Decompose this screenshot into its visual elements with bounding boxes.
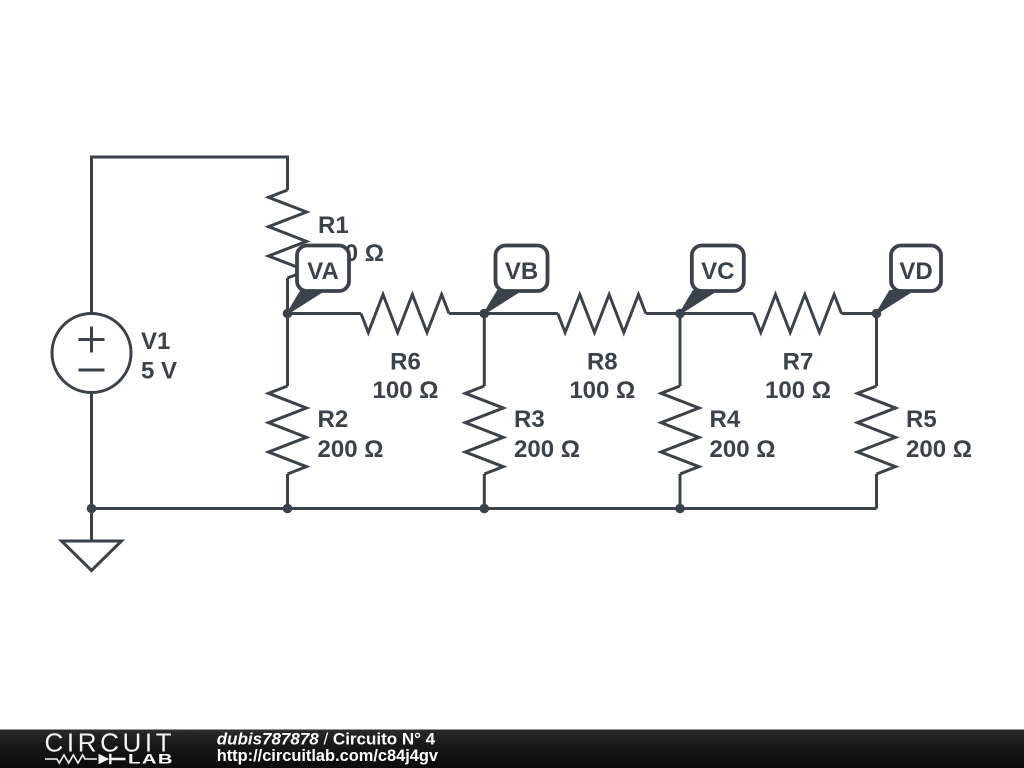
wire: node VC to R7 left lead (680, 312, 754, 315)
CircuitLab logo squiggle resistor (45, 755, 97, 763)
node VC junction dot (675, 309, 685, 319)
footer bar (0, 730, 1024, 768)
V1 minus sign (79, 369, 105, 372)
svg-text:200 Ω: 200 Ω (514, 436, 580, 463)
svg-text:100 Ω: 100 Ω (765, 377, 831, 404)
resistor R8 zigzag (558, 295, 646, 333)
svg-text:R2: R2 (318, 406, 349, 433)
svg-text:R3: R3 (514, 406, 545, 433)
node VB flag tail (484, 291, 520, 314)
CircuitLab logo diode (99, 754, 110, 764)
V1 plus sign (79, 327, 105, 353)
svg-text:R6: R6 (390, 349, 421, 376)
svg-text:100 Ω: 100 Ω (569, 377, 635, 404)
voltage source V1 circle (52, 314, 131, 393)
wire: R6 right lead to node VB (449, 312, 484, 315)
junction dot R3 bottom (480, 504, 490, 514)
svg-text:VA: VA (307, 258, 339, 285)
resistor R7 zigzag (754, 295, 842, 333)
svg-text:http://circuitlab.com/c84j4gv: http://circuitlab.com/c84j4gv (217, 747, 439, 765)
svg-text:R4: R4 (710, 406, 741, 433)
wire: bottom rail (92, 507, 877, 510)
wire: R1 bottom lead to node VA (286, 278, 289, 314)
svg-text:R7: R7 (783, 349, 814, 376)
wire: node VB to R8 left lead (484, 312, 558, 315)
wire: V1 top to top rail to R1 top lead (92, 157, 288, 314)
node VB flag box (496, 246, 548, 292)
svg-text:VB: VB (505, 258, 538, 285)
svg-text:100 Ω: 100 Ω (373, 377, 439, 404)
svg-text:dubis787878 / Circuito N° 4: dubis787878 / Circuito N° 4 (217, 730, 436, 749)
node VA flag tail (288, 291, 324, 314)
svg-text:200 Ω: 200 Ω (906, 436, 972, 463)
node VC flag tail (680, 291, 716, 314)
svg-text:LAB: LAB (128, 751, 174, 767)
wire: node VA to R6 left lead (288, 312, 362, 315)
footer glow (0, 699, 490, 759)
wire: R2 bottom lead to bottom rail (286, 474, 289, 509)
node VC flag box (692, 246, 744, 292)
node VD flag box (891, 246, 941, 292)
node VB junction dot (480, 309, 490, 319)
svg-text:200 Ω: 200 Ω (318, 436, 384, 463)
resistor R2 zigzag (269, 386, 307, 474)
resistor R4 zigzag (661, 386, 699, 474)
resistor R6 zigzag (361, 295, 449, 333)
node VA junction dot (283, 309, 293, 319)
resistor R3 zigzag (465, 386, 503, 474)
wire: R3 bottom lead to bottom rail (483, 474, 486, 509)
wire: R5 bottom lead to bottom rail (875, 474, 878, 509)
svg-text:VD: VD (899, 258, 932, 285)
resistor R5 zigzag (858, 386, 896, 474)
node VD flag tail (877, 291, 913, 314)
svg-text:VC: VC (701, 258, 734, 285)
wire: R7 right lead to node VD (842, 312, 877, 315)
svg-text:V1: V1 (141, 328, 170, 355)
ground stem (90, 509, 93, 542)
svg-text:200 Ω: 200 Ω (710, 436, 776, 463)
svg-text:5 V: 5 V (141, 358, 177, 385)
wire: V1 bottom to ground node (90, 393, 93, 509)
svg-text:R5: R5 (906, 406, 937, 433)
wire: node VC down to R4 top lead (679, 314, 682, 387)
ground junction dot (87, 504, 97, 514)
junction dot R2 bottom (283, 504, 293, 514)
wire: node VA down to R2 top lead (286, 314, 289, 387)
resistor R1 zigzag (269, 190, 307, 278)
wire: R8 right lead to node VC (646, 312, 680, 315)
junction dot R4 bottom (675, 504, 685, 514)
node VD junction dot (872, 309, 882, 319)
node VA flag box (297, 246, 349, 292)
wire: R4 bottom lead to bottom rail (679, 474, 682, 509)
ground triangle (62, 541, 122, 571)
wire: node VB down to R3 top lead (483, 314, 486, 387)
svg-text:R1: R1 (318, 212, 349, 239)
svg-text:R8: R8 (587, 349, 618, 376)
wire: node VD down to R5 top lead (875, 314, 878, 387)
